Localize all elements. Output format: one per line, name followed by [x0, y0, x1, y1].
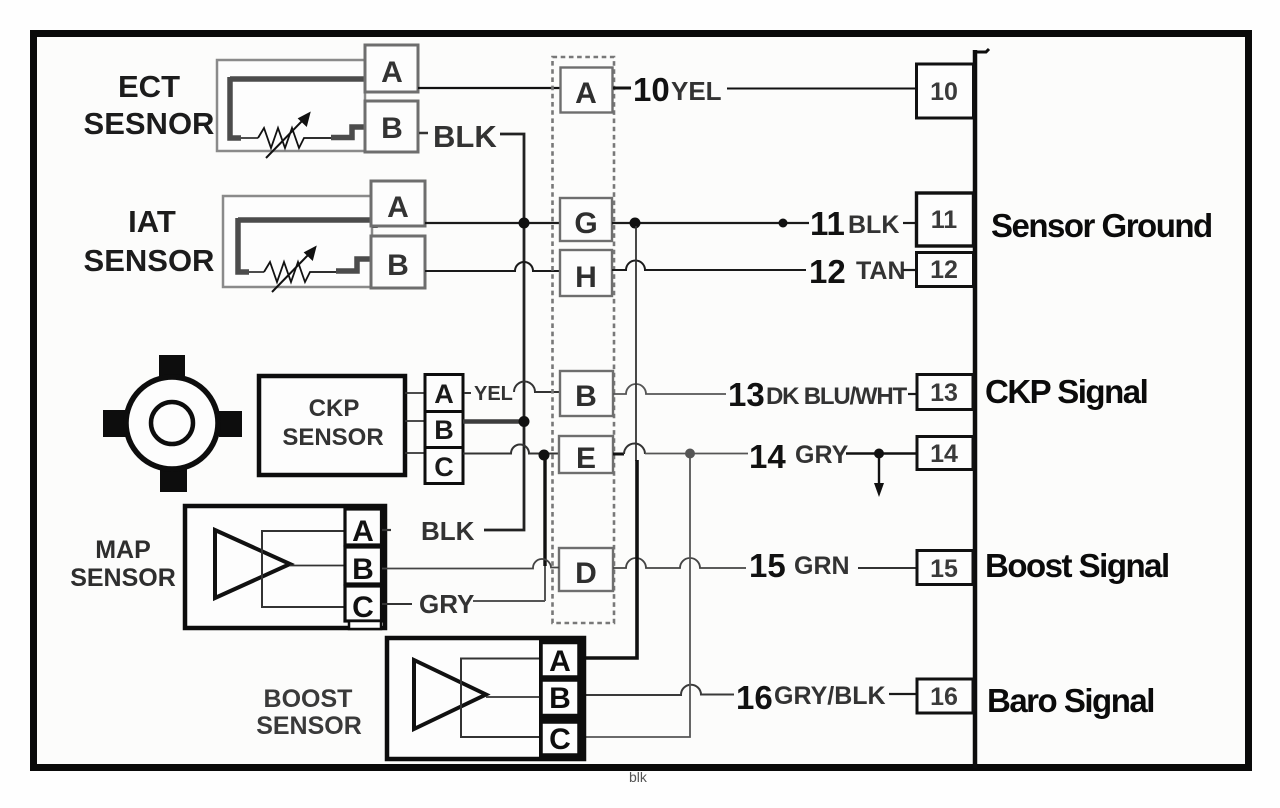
junction CKP-B / BLK bus — [519, 416, 530, 427]
wire ECT-A to connector A (net 10) — [418, 87, 561, 89]
svg-text:B: B — [549, 682, 571, 715]
BOOST sensor label — [256, 685, 362, 740]
wire row 11: connector G to ECM pin 11, BLK sensor ground — [612, 222, 809, 224]
svg-text:SENSOR: SENSOR — [282, 424, 383, 451]
svg-text:H: H — [575, 261, 597, 294]
svg-text:11: 11 — [931, 206, 958, 234]
svg-text:C: C — [352, 591, 374, 624]
connector C1 dashed shell — [553, 57, 615, 623]
svg-text:BLK: BLK — [421, 516, 475, 546]
wire BLK label stub — [419, 132, 428, 135]
connector C1 pin H — [560, 250, 612, 296]
wire IAT-B to connector H (net 12) with hop over BLK bus — [425, 262, 560, 271]
5V ref riser: MAP C GRY up to CKP-C junction — [543, 456, 546, 566]
MAP pin A — [345, 509, 382, 545]
label YEL (CKP A wire) — [464, 392, 471, 394]
wire row 16: boost B to ECM pin 16, GRY/BLK — [579, 685, 734, 695]
svg-text:CKP Signal: CKP Signal — [985, 373, 1147, 410]
svg-text:SESNOR: SESNOR — [84, 106, 215, 141]
junction row 14 arrow tap — [874, 449, 884, 459]
svg-text:YEL: YEL — [474, 383, 513, 405]
BOOST sensor body — [387, 638, 584, 759]
MAP amp output wire to pin B — [290, 565, 345, 567]
svg-text:12: 12 — [930, 256, 958, 284]
ECM pin 12 — [917, 253, 974, 287]
svg-text:GRY: GRY — [795, 441, 849, 469]
ECM pin 15 — [917, 551, 973, 585]
BOOST amp output wire to pin B — [486, 696, 541, 698]
svg-text:SENSOR: SENSOR — [256, 712, 362, 740]
svg-text:TAN: TAN — [856, 257, 906, 285]
svg-text:Sensor Ground: Sensor Ground — [991, 207, 1212, 244]
MAP sensor body — [185, 506, 385, 628]
svg-text:15: 15 — [930, 555, 958, 583]
wire CKP-B (shield) to BLK bus — [463, 419, 522, 424]
wire MAP B to connector D with hop over 5V riser — [382, 559, 559, 568]
ECM pin 10 — [917, 64, 974, 118]
wire row 12: connector H to ECM pin 12, TAN — [612, 261, 806, 271]
svg-text:A: A — [387, 191, 409, 224]
svg-text:A: A — [549, 645, 571, 678]
svg-text:B: B — [387, 249, 409, 282]
connector C1 pin B — [560, 371, 613, 416]
svg-text:16: 16 — [930, 683, 958, 711]
svg-text:10: 10 — [633, 71, 670, 108]
CKP pin B — [425, 412, 463, 448]
svg-text:10: 10 — [930, 78, 958, 106]
svg-text:SENSOR: SENSOR — [84, 243, 215, 278]
svg-text:A: A — [434, 379, 454, 409]
svg-text:B: B — [434, 415, 454, 445]
wire CKP-A YEL to connector B with hop over BLK bus — [514, 382, 561, 392]
ECT thermistor RT internal wiring — [230, 77, 372, 148]
svg-text:MAP: MAP — [95, 536, 151, 564]
IAT thermistor arrow — [272, 247, 316, 293]
IAT thermistor RT internal wiring — [238, 218, 378, 282]
IAT pin B — [371, 236, 425, 288]
ground bus riser: boost A up to G row — [635, 226, 637, 461]
junction 5V ref to boost C riser — [685, 449, 695, 459]
svg-text:blk: blk — [629, 769, 648, 785]
svg-text:ECT: ECT — [118, 69, 180, 104]
junction CKP-C / MAP-C 5V ref — [539, 450, 550, 461]
label GRY (MAP C wire) — [382, 603, 412, 605]
wire row 10: connector A to ECM pin 10, YEL — [613, 87, 631, 90]
svg-text:C: C — [549, 723, 571, 756]
MAP op-amp triangle — [215, 530, 290, 598]
svg-text:IAT: IAT — [128, 204, 176, 239]
svg-text:GRY: GRY — [419, 589, 474, 619]
svg-text:B: B — [352, 553, 374, 586]
junction IAT-A / BLK bus — [519, 218, 530, 229]
svg-text:B: B — [381, 112, 403, 145]
svg-text:G: G — [574, 207, 597, 240]
connector C1 pin E — [559, 436, 613, 473]
svg-text:CKP: CKP — [309, 395, 360, 422]
svg-text:Baro Signal: Baro Signal — [987, 682, 1154, 719]
wire BLK label to vertical ground bus — [484, 134, 524, 530]
BOOST internal wiring — [461, 659, 541, 738]
svg-text:11: 11 — [810, 205, 845, 242]
wire CKP body to pin B — [405, 420, 425, 422]
ECT pin B — [365, 101, 418, 152]
svg-text:BOOST: BOOST — [264, 685, 353, 713]
svg-text:A: A — [575, 77, 597, 110]
MAP internal wiring — [262, 531, 345, 607]
connector C1 pin D — [559, 548, 613, 591]
BOOST pin A — [541, 643, 579, 678]
svg-text:14: 14 — [930, 440, 958, 468]
MAP sensor label — [70, 536, 176, 592]
MAP pin sliver — [349, 621, 381, 629]
ECM connector bus bar — [973, 50, 978, 768]
svg-text:A: A — [381, 56, 403, 89]
svg-text:12: 12 — [809, 253, 846, 290]
arrow down from row 14 — [878, 456, 880, 484]
ECT sensor label — [84, 69, 215, 141]
connector C1 pin G — [560, 198, 612, 241]
svg-text:GRY/BLK: GRY/BLK — [774, 682, 886, 710]
svg-text:D: D — [575, 557, 597, 590]
ECM pin 16 — [917, 679, 973, 713]
ECM pin 14 — [917, 437, 973, 470]
BOOST pin column backing — [539, 640, 586, 757]
wire CKP body to pin C — [405, 452, 425, 454]
MAP pin B — [345, 547, 382, 584]
wire IAT-A to connector G (sensor ground) — [425, 222, 561, 224]
svg-text:BLK: BLK — [848, 211, 899, 239]
BOOST pin C — [541, 722, 579, 755]
svg-text:YEL: YEL — [671, 76, 722, 106]
svg-text:B: B — [575, 380, 597, 413]
MAP pin C — [345, 586, 382, 621]
CKP sensor body — [259, 376, 405, 475]
5V ref riser: boost C up to row 14 junction — [580, 456, 690, 737]
CKP pin A — [425, 375, 463, 412]
svg-text:13: 13 — [728, 376, 765, 413]
wire CKP-C to connector E with hop over BLK bus — [463, 445, 559, 454]
ECM pin 13 — [917, 375, 973, 410]
svg-text:SENSOR: SENSOR — [70, 564, 176, 592]
svg-text:Boost Signal: Boost Signal — [985, 547, 1169, 584]
wire row 13: connector B to ECM pin 13, DK BLU/WHT — [613, 384, 726, 394]
svg-text:14: 14 — [749, 438, 786, 475]
svg-text:16: 16 — [736, 679, 773, 716]
ECT thermistor arrow — [266, 113, 310, 159]
ECT sensor body — [217, 60, 365, 151]
junction ground bus drop at G row — [630, 218, 641, 229]
reluctor wheel — [103, 355, 242, 492]
BOOST op-amp triangle — [414, 660, 486, 729]
svg-text:13: 13 — [930, 379, 958, 407]
ECT pin A — [365, 45, 418, 92]
label BLK (MAP A wire) — [382, 529, 391, 531]
svg-text:C: C — [434, 452, 454, 482]
wire CKP body to pin A — [405, 392, 425, 394]
svg-text:GRN: GRN — [794, 552, 850, 580]
wire row 15: connector D to ECM pin 15, GRN — [613, 558, 746, 568]
svg-text:E: E — [576, 442, 596, 475]
connector C1 pin A — [561, 68, 613, 113]
ECM pin 11 — [917, 193, 974, 246]
IAT sensor body — [223, 196, 372, 287]
BOOST pin B — [541, 680, 579, 716]
svg-text:DK BLU/WHT: DK BLU/WHT — [766, 383, 908, 410]
IAT pin A — [371, 181, 425, 226]
svg-text:BLK: BLK — [433, 119, 497, 154]
svg-text:15: 15 — [749, 547, 786, 584]
svg-text:A: A — [352, 515, 374, 548]
splice dot on row 11 — [779, 219, 788, 228]
wire row 14: connector E to ECM pin 14, GRY 5V ref — [613, 453, 624, 456]
IAT sensor label — [84, 204, 215, 278]
CKP pin C — [425, 448, 463, 484]
